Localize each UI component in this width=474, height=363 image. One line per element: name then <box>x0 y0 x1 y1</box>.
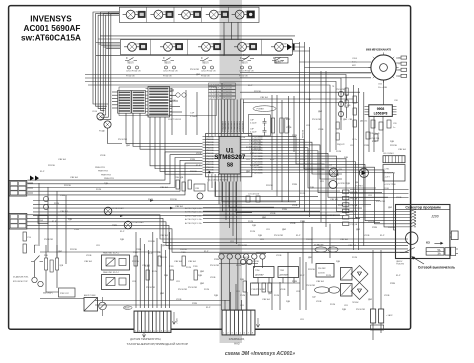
svg-text:РЛ2В: РЛ2В <box>136 249 142 251</box>
svg-text:+СЕТ: +СЕТ <box>385 177 391 179</box>
transistor Q4 <box>329 181 337 189</box>
svg-text:У2ОВ: У2ОВ <box>86 255 92 257</box>
U1 top pin wires <box>208 100 210 134</box>
svg-text:У2ОВ: У2ОВ <box>292 205 298 207</box>
svg-text:Т8: Т8 <box>332 86 334 88</box>
svg-text:РО24: РО24 <box>186 267 192 269</box>
svg-text:РО24 2В: РО24 2В <box>224 91 233 93</box>
svg-text:Р52 470R: Р52 470R <box>356 309 365 311</box>
resistor RV22 <box>285 118 288 133</box>
svg-text:К1-Р: К1-Р <box>52 221 57 223</box>
thermal fuse F2 <box>162 58 174 61</box>
svg-text:2ДВ: 2ДВ <box>214 295 218 297</box>
oval component E1 <box>315 247 327 252</box>
svg-text:РЛ2В: РЛ2В <box>300 221 306 223</box>
svg-text:J10С7 U8С05: J10С7 U8С05 <box>168 119 182 121</box>
svg-text:03 ДАТЧИК Р2В,: 03 ДАТЧИК Р2В, <box>13 276 29 279</box>
horizontal net wires center <box>240 72 371 74</box>
load motor M2 <box>164 42 173 51</box>
svg-text:РМ8Н РХ3: РМ8Н РХ3 <box>104 178 115 180</box>
svg-text:У2ОВ: У2ОВ <box>196 153 202 155</box>
svg-text:РВД 47К: РВД 47К <box>337 144 345 146</box>
wire harness bundle left <box>93 12 119 104</box>
motor stator ticks <box>368 52 398 82</box>
extra parts left of U5 <box>345 88 348 95</box>
svg-text:РЛ2В: РЛ2В <box>60 195 66 197</box>
svg-text:С3В 104: С3В 104 <box>262 299 271 301</box>
svg-text:2ДВ: 2ДВ <box>68 219 72 221</box>
svg-text:ПВОЛ: ПВОЛ <box>202 63 209 65</box>
RC filter cluster box <box>248 115 270 136</box>
selector rotary cam <box>406 232 418 244</box>
svg-text:Р10: Р10 <box>28 237 31 239</box>
svg-text:2ДВ: 2ДВ <box>336 261 340 263</box>
svg-text:СХ РОВ2В: СХ РОВ2В <box>210 84 221 86</box>
svg-text:РВ2ОВ: РВ2ОВ <box>206 156 214 158</box>
icon for M5 <box>287 44 292 50</box>
svg-text:РО24: РО24 <box>54 203 60 205</box>
svg-text:КЛЕММНАЯ,: КЛЕММНАЯ, <box>229 337 245 341</box>
resistor R52 <box>243 281 247 292</box>
svg-text:С1Р: С1Р <box>190 113 195 115</box>
svg-text:РВ2ОВ: РВ2ОВ <box>206 142 214 144</box>
svg-text:РО8ВЛ: РО8ВЛ <box>257 109 265 111</box>
svg-text:К1-Р: К1-Р <box>300 275 305 277</box>
wire <box>160 46 176 48</box>
U1 right pins <box>240 136 258 138</box>
resistor R11 <box>23 244 26 253</box>
svg-text:Р52 470R: Р52 470R <box>44 239 53 241</box>
svg-text:С3В 104: С3В 104 <box>260 97 269 99</box>
triac module box <box>84 298 98 312</box>
svg-text:У2ОВ: У2ОВ <box>210 277 216 279</box>
svg-text:РХ2ОВ: РХ2ОВ <box>148 241 155 243</box>
svg-text:10н +63В: 10н +63В <box>378 87 388 89</box>
thermal fuse F1 <box>125 58 137 61</box>
vertical net wires center <box>271 95 273 190</box>
svg-text:COM: COM <box>282 44 287 46</box>
svg-text:К1-Р: К1-Р <box>330 215 335 217</box>
load group frame row 1 <box>119 7 259 22</box>
bottom bus wires <box>95 300 230 302</box>
right-bottom frame wires <box>256 252 409 254</box>
wires right column <box>352 85 354 250</box>
svg-text:РЛ2В: РЛ2В <box>306 99 312 101</box>
svg-text:РХ2ОВ: РХ2ОВ <box>170 199 177 201</box>
svg-text:Р52 470R: Р52 470R <box>312 119 321 121</box>
svg-text:2ДВ: 2ДВ <box>286 301 290 303</box>
svg-text:С3В 104: С3В 104 <box>316 281 325 283</box>
svg-text:У2ОВ: У2ОВ <box>316 301 322 303</box>
svg-text:К1-Р: К1-Р <box>372 141 377 143</box>
svg-text:Р52 470R: Р52 470R <box>238 245 247 247</box>
svg-text:РЛ2В: РЛ2В <box>292 135 298 137</box>
svg-text:2ДВ: 2ДВ <box>310 187 314 189</box>
wires to stubs <box>373 250 381 309</box>
contact pair S2 <box>165 66 168 69</box>
sensor circle B6 <box>38 281 43 286</box>
svg-text:РО24 2В: РО24 2В <box>224 88 233 90</box>
svg-text:РХВ2ОВУ2: РХВ2ОВУ2 <box>231 120 233 131</box>
wire harness row 2 feed <box>96 42 120 44</box>
svg-text:РХВ2ОВУ2: РХВ2ОВУ2 <box>222 120 224 131</box>
svg-text:К1-Р: К1-Р <box>286 119 291 121</box>
svg-text:РО24: РО24 <box>326 275 332 277</box>
svg-text:INVENSYS: INVENSYS <box>30 14 72 23</box>
relay box K2 <box>341 284 353 297</box>
svg-text:РО24: РО24 <box>352 257 358 259</box>
svg-text:1н: 1н <box>393 127 395 129</box>
svg-text:Сетевой выключатель: Сетевой выключатель <box>418 265 455 269</box>
sensor circle B2 <box>43 204 48 209</box>
svg-text:У2ОВ: У2ОВ <box>286 127 292 129</box>
bus under T2M <box>252 282 300 284</box>
svg-text:С2 1н: С2 1н <box>352 139 357 141</box>
vertical drops mid-left <box>38 183 40 246</box>
svg-text:Σ: Σ <box>201 56 203 60</box>
svg-text:У2ОВ: У2ОВ <box>270 213 276 215</box>
driver IC U3 ULN bank <box>118 90 131 113</box>
bridge rectifier VD2 <box>351 283 368 300</box>
svg-text:К1-Р: К1-Р <box>148 253 153 255</box>
svg-text:РЛ2В: РЛ2В <box>192 303 198 305</box>
svg-text:РХ2ОВ: РХ2ОВ <box>132 261 139 263</box>
indicator icon for Y5 <box>247 11 255 18</box>
svg-text:С3В 104: С3В 104 <box>70 177 79 179</box>
relay module PA30 K2 <box>102 275 130 290</box>
svg-text:АСТЮ РЦ32 C.Db: АСТЮ РЦ32 C.Db <box>185 218 203 221</box>
oval net label <box>253 106 276 112</box>
svg-text:У2ОВ: У2ОВ <box>318 129 324 131</box>
connector J2 temperature/tacho/motor <box>134 311 171 333</box>
connector past frame <box>451 247 456 255</box>
svg-text:С3В 104: С3В 104 <box>160 187 169 189</box>
sensor circle B5 <box>32 277 37 282</box>
svg-text:РЛ2В: РЛ2В <box>292 184 298 186</box>
svg-text:РХВ2ОВУ2: РХВ2ОВУ2 <box>228 120 230 131</box>
svg-text:СХС3 РО24 ОК: СХС3 РО24 ОК <box>201 71 216 73</box>
bus wires over drivers <box>85 75 346 105</box>
svg-text:DC/РИО: DC/РИО <box>338 183 346 185</box>
svg-text:РО24: РО24 <box>246 147 252 149</box>
svg-text:0.1мкФ: 0.1мкФ <box>250 130 257 133</box>
svg-text:+С2ОУ ПУЮ: +С2ОУ ПУЮ <box>384 184 396 186</box>
capacitor symbol C10 <box>263 118 267 127</box>
connector stub XP2 <box>379 309 384 323</box>
svg-text:РХВ2ОВУ2: РХВ2ОВУ2 <box>234 120 236 131</box>
svg-text:К1-Р: К1-Р <box>120 231 125 233</box>
svg-text:COM: COM <box>135 44 140 46</box>
thermal fuse F3 <box>200 58 212 61</box>
svg-text:ПЛ.ВЖ: ПЛ.ВЖ <box>352 302 359 304</box>
svg-text:АСТЮ РЦ32 C.Db: АСТЮ РЦ32 C.Db <box>185 222 203 225</box>
relay box RV2 <box>275 58 288 64</box>
svg-text:К1-Р: К1-Р <box>270 159 275 161</box>
transistor Q3 <box>329 168 338 177</box>
svg-text:2ДВ: 2ДВ <box>104 183 108 185</box>
junction lamp DL1 <box>97 113 104 120</box>
svg-text:РВ2ОВ: РВ2ОВ <box>206 147 214 149</box>
svg-text:03 ВАУ2М: 03 ВАУ2М <box>314 244 324 247</box>
svg-text:У2ОВ: У2ОВ <box>364 235 370 237</box>
U1 top pins <box>208 134 210 137</box>
svg-text:У2ОВ: У2ОВ <box>300 159 306 161</box>
svg-text:РВ2ОВ: РВ2ОВ <box>206 145 214 147</box>
svg-text:COM: COM <box>216 11 221 13</box>
svg-text:COM: COM <box>161 11 166 13</box>
filter box T2M right <box>278 267 299 278</box>
svg-text:РЛ2В: РЛ2В <box>74 229 80 231</box>
contact pair S1 <box>128 66 131 69</box>
svg-text:АСТЮ РЦ32 C.Db: АСТЮ РЦ32 C.Db <box>185 211 203 214</box>
svg-text:РО24: РО24 <box>96 189 102 191</box>
svg-text:РХВ2ОВУ2: РХВ2ОВУ2 <box>225 120 227 131</box>
svg-text:РВ2ОВ: РВ2ОВ <box>206 136 214 138</box>
driver IC U4 ULN bank <box>148 87 170 118</box>
wires from U1 bottom to lower rows <box>208 182 340 192</box>
svg-text:РВ2ОК: РВ2ОК <box>277 61 285 63</box>
wires from J5 <box>27 215 408 239</box>
svg-text:РЛ2В: РЛ2В <box>282 209 288 211</box>
svg-text:1М ОСИНО: 1М ОСИНО <box>383 153 394 155</box>
svg-text:COM: COM <box>171 44 176 46</box>
svg-text:Р52 470R: Р52 470R <box>306 285 315 287</box>
arrow to switch <box>413 257 424 264</box>
U5 pins <box>365 106 369 108</box>
switch SB2 <box>31 256 43 262</box>
fuse block terminal <box>445 248 451 255</box>
svg-text:AC001 5690AF: AC001 5690AF <box>24 24 81 33</box>
svg-text:С3В 104: С3В 104 <box>398 149 407 151</box>
wire <box>108 128 123 143</box>
svg-text:COM: COM <box>189 11 194 13</box>
svg-text:РО24: РО24 <box>152 271 158 273</box>
svg-text:+ТАХО: +ТАХО <box>176 317 179 324</box>
svg-text:Р8Н 2ДВ: Р8Н 2ДВ <box>175 177 184 179</box>
schematic border frame <box>9 6 411 330</box>
svg-text:Р52 470R: Р52 470R <box>336 89 345 91</box>
svg-text:COM: COM <box>242 11 247 13</box>
component box PL82 <box>59 288 76 297</box>
snubber box <box>383 165 405 182</box>
svg-text:У2ОВ: У2ОВ <box>290 223 296 225</box>
wires from drivers <box>112 91 118 93</box>
svg-text:РХ2ОВ: РХ2ОВ <box>48 165 55 167</box>
svg-text:РА2М: РА2М <box>124 307 129 310</box>
connector J4 pin stubs <box>27 183 33 193</box>
svg-text:2ДВ: 2ДВ <box>252 225 256 227</box>
switch contact under cam <box>400 248 415 253</box>
svg-text:К1-Р: К1-Р <box>196 165 201 167</box>
indicator icon for Y2 <box>166 11 173 17</box>
valve motor Y3 <box>182 10 191 19</box>
svg-text:К1-Р: К1-Р <box>296 235 301 237</box>
resistor stack right <box>343 190 349 193</box>
svg-text:У2ОВ: У2ОВ <box>176 299 182 301</box>
selector contacts <box>396 209 417 211</box>
svg-text:РХВ2ОВУ2: РХВ2ОВУ2 <box>240 120 242 131</box>
svg-text:Т2М: Т2М <box>255 270 260 272</box>
arrow marks at J4 <box>30 176 34 181</box>
svg-text:СХВ: СХВ <box>195 188 200 190</box>
svg-text:РЛ82 С2Л: РЛ82 С2Л <box>60 293 69 295</box>
inductor T2 <box>383 156 405 163</box>
junction lamp DL2 <box>104 121 111 128</box>
svg-text:РО24 ОВ: РО24 ОВ <box>201 75 210 77</box>
wires from U1 bottom pins <box>211 182 213 189</box>
capacitor symbol C11 <box>263 127 267 136</box>
svg-text:РШ.2ВУ: РШ.2ВУ <box>318 268 326 270</box>
svg-text:68П: 68П <box>352 65 356 67</box>
mid rows wires <box>33 200 380 202</box>
signal lamp H1 <box>104 207 112 215</box>
resistor column bottom-left <box>134 256 137 266</box>
svg-text:НАЗ: НАЗ <box>234 342 240 346</box>
svg-text:РВ2ОВ: РВ2ОВ <box>206 167 214 169</box>
wire <box>206 14 221 16</box>
svg-text:АСТЮ РЦ32 C.Db: АСТЮ РЦ32 C.Db <box>185 207 203 210</box>
svg-text:L6563Р8: L6563Р8 <box>374 111 388 115</box>
svg-text:2ДВ: 2ДВ <box>164 275 168 277</box>
svg-text:РЛ2В: РЛ2В <box>190 159 196 161</box>
filter box T2M left <box>254 267 275 278</box>
svg-text:4n4 +: 4n4 + <box>352 62 358 64</box>
svg-text:РМ8Н РХ3: РМ8Н РХ3 <box>98 171 109 173</box>
wire <box>124 46 140 48</box>
icon for M2 <box>176 43 183 49</box>
svg-text:220ОВ: 220ОВ <box>318 273 325 275</box>
icon for M4 <box>250 43 257 49</box>
aux connector right of selector <box>451 231 458 240</box>
box RSh2VU <box>316 264 334 278</box>
svg-text:РВ2ОВ: РВ2ОВ <box>206 172 214 174</box>
vertical wires right of X1 <box>272 253 288 311</box>
svg-text:ДМ2ВАР: ДМ2ВАР <box>280 274 289 277</box>
box K5 <box>194 184 205 191</box>
svg-text:РХ2ОВ: РХ2ОВ <box>70 249 77 251</box>
U1 pin-1 dot <box>208 171 210 173</box>
wires under snubber <box>350 189 409 191</box>
svg-text:2ДВ: 2ДВ <box>250 153 254 155</box>
wire <box>123 14 138 16</box>
svg-text:С3В 104: С3В 104 <box>348 245 357 247</box>
load group frame row 2 <box>121 40 293 55</box>
title block INVENSYS AC001 5690AF sw:AT60CA15A <box>21 14 81 42</box>
program selector switch SA1 <box>396 205 450 259</box>
IC U5 L6563 <box>369 105 393 117</box>
svg-text:РЛ2В: РЛ2В <box>214 259 220 261</box>
svg-text:С2Н 1мкФ: С2Н 1мкФ <box>370 132 380 135</box>
svg-text:РЛ2В: РЛ2В <box>364 145 370 147</box>
svg-text:К1-Р: К1-Р <box>380 235 385 237</box>
selector drop wires <box>303 221 330 290</box>
svg-text:РЗД.ХВ: РЗД.ХВ <box>351 205 358 207</box>
resistor R22 <box>50 260 53 272</box>
sensor circle B1 <box>43 196 48 201</box>
svg-text:РВ2ОВ: РВ2ОВ <box>206 170 214 172</box>
U1 bottom pins <box>208 174 210 182</box>
svg-text:Р.ОДК: Р.ОДК <box>99 131 106 133</box>
label stack above U1 <box>209 83 222 86</box>
svg-text:РВ2ОВ: РВ2ОВ <box>206 164 214 166</box>
svg-text:РЛ2В: РЛ2В <box>372 227 378 229</box>
svg-text:С3В 104: С3В 104 <box>142 265 151 267</box>
svg-text:ЗА: ЗА <box>438 253 441 256</box>
svg-text:COM: COM <box>133 11 138 13</box>
connector J4 (door lock) <box>9 181 27 197</box>
svg-text:РВ2ОВ: РВ2ОВ <box>206 139 214 141</box>
svg-text:С3В 104: С3В 104 <box>84 261 93 263</box>
caps row 2 under U5 <box>366 132 370 139</box>
svg-text:С3В 104: С3В 104 <box>330 199 339 201</box>
svg-text:9908: 9908 <box>377 107 385 111</box>
pad row under U1 <box>219 254 224 259</box>
svg-text:РО24: РО24 <box>236 265 242 267</box>
bus wire between load rows <box>100 35 295 37</box>
svg-text:С3В 104: С3В 104 <box>60 211 69 213</box>
svg-text:РО24: РО24 <box>336 151 342 153</box>
svg-text:РВ2ОВ: РВ2ОВ <box>206 150 214 152</box>
svg-text:С204: С204 <box>352 58 358 60</box>
svg-text:0.1мкФ: 0.1мкФ <box>250 121 257 124</box>
svg-text:СХ ВЕСНАЯ: СХ ВЕСНАЯ <box>132 221 144 224</box>
icon for M1 <box>140 43 147 49</box>
svg-text:Селектор программ: Селектор программ <box>405 206 441 210</box>
arrow tick marks <box>120 199 174 217</box>
svg-text:РО24: РО24 <box>148 199 154 201</box>
svg-text:2ДВ: 2ДВ <box>344 157 348 159</box>
crossing bus pair <box>240 99 358 103</box>
svg-text:РХ2ОВ: РХ2ОВ <box>266 185 273 187</box>
svg-text:РХ2ОВ: РХ2ОВ <box>190 171 197 173</box>
svg-text:2ДВ: 2ДВ <box>342 309 346 311</box>
resistor R21 <box>45 258 48 270</box>
wire <box>150 14 165 16</box>
svg-text:Р52 470R: Р52 470R <box>118 139 127 141</box>
box RIV <box>251 283 259 295</box>
svg-text:РХ1В: РХ1В <box>240 137 246 139</box>
reference chain diodes <box>338 91 343 96</box>
motor winding stubs <box>300 62 372 73</box>
svg-text:У2ОВ: У2ОВ <box>280 289 286 291</box>
valve motor Y5 <box>235 10 244 19</box>
bridge rectifier VD1 <box>351 266 368 283</box>
svg-text:У2ОВ: У2ОВ <box>276 255 282 257</box>
svg-text:Р52 470R: Р52 470R <box>210 265 219 267</box>
svg-text:РО24 2В: РО24 2В <box>224 94 233 96</box>
svg-text:СХ РОВ2В: СХ РОВ2В <box>210 88 221 90</box>
svg-text:РА30 КМ2 К2-Р-С: РА30 КМ2 К2-Р-С <box>103 271 120 274</box>
diode network oval <box>315 287 330 293</box>
valve motor Y2 <box>154 10 163 19</box>
component box K2 <box>38 216 48 224</box>
svg-text:Р52 470R: Р52 470R <box>274 235 283 237</box>
svg-text:К1-Р: К1-Р <box>206 307 211 309</box>
svg-text:РХ2ОВ: РХ2ОВ <box>160 257 167 259</box>
load motor M4 <box>238 42 247 51</box>
svg-text:РС8U993: РС8U993 <box>396 264 404 266</box>
vertical wires to bottom connector <box>135 232 137 308</box>
wires into X1 <box>224 300 226 310</box>
svg-text:РХ2ОВ: РХ2ОВ <box>254 91 261 93</box>
svg-text:РХВ2ОВУ2: РХВ2ОВУ2 <box>237 120 239 131</box>
capacitors near U5 <box>353 96 356 103</box>
svg-text:COM: COM <box>209 44 214 46</box>
wire drops in band <box>224 22 238 55</box>
svg-text:РО24: РО24 <box>330 304 336 306</box>
svg-text:РЛ2В: РЛ2В <box>292 281 298 283</box>
vertical links drivers to U1 stack <box>172 88 197 135</box>
